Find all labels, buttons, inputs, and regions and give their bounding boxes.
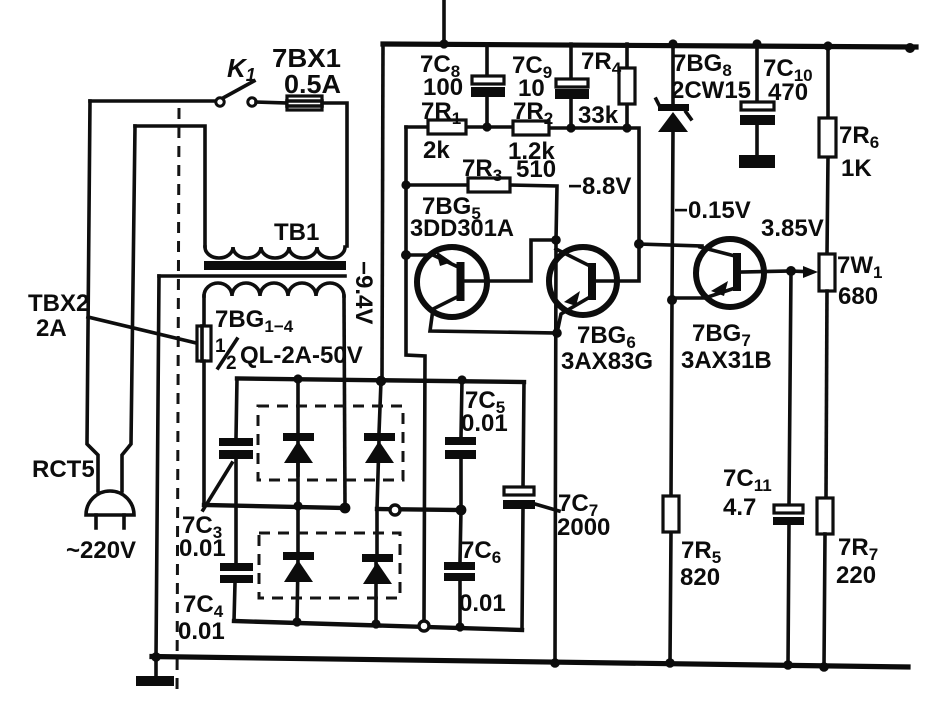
capacitor 7C3 column [234, 379, 237, 622]
svg-text:0.01: 0.01 [179, 535, 226, 562]
dashed box upper [258, 406, 403, 480]
ground [154, 657, 158, 677]
switch K1 [216, 81, 256, 106]
fuse 7BX1 [256, 102, 287, 103]
svg-text:−8.8V: −8.8V [568, 173, 631, 200]
wire mains right [122, 126, 135, 491]
svg-text:QL-2A-50V: QL-2A-50V [240, 342, 363, 369]
top bus [383, 44, 916, 47]
node bus bottom dots [550, 658, 560, 668]
plug RCT5 [86, 491, 134, 528]
capacitor 7C4 [220, 563, 253, 571]
svg-text:470: 470 [768, 79, 808, 106]
svg-text:680: 680 [838, 283, 878, 310]
svg-text:820: 820 [680, 564, 720, 591]
svg-text:220: 220 [836, 562, 876, 589]
capacitor 7C11 [774, 505, 803, 513]
svg-text:3.85V: 3.85V [761, 215, 824, 242]
capacitor 7C9 [569, 44, 573, 128]
diode D1 column [297, 379, 298, 622]
svg-text:1: 1 [215, 336, 226, 357]
fuse TBX2 [197, 326, 211, 361]
capacitor 7C8 [485, 44, 489, 127]
svg-text:2A: 2A [36, 315, 67, 342]
resistor 7R7 [817, 498, 833, 534]
capacitor 7C7 [504, 487, 534, 495]
transistor 7BG7 [672, 239, 791, 307]
resistor 7R4 [625, 44, 629, 128]
capacitor 7C10 [755, 44, 759, 156]
transformer TB1 secondary [204, 283, 344, 296]
svg-text:TB1: TB1 [274, 219, 319, 246]
svg-text:1K: 1K [841, 155, 872, 182]
diode 7BG1 [283, 433, 314, 441]
svg-text:~220V: ~220V [66, 537, 136, 564]
svg-text:3AX83G: 3AX83G [561, 348, 653, 375]
svg-text:510: 510 [516, 156, 556, 183]
capacitor 7C5 column [460, 380, 462, 627]
bridge middle right wire [377, 509, 461, 510]
svg-text:TBX2: TBX2 [28, 290, 89, 317]
svg-text:2000: 2000 [557, 514, 610, 541]
pointer TBX2 [88, 317, 196, 343]
wire bus to bridge top [382, 44, 383, 381]
wire secondary right [344, 296, 345, 506]
svg-text:3DD301A: 3DD301A [410, 215, 514, 242]
svg-text:0.5A: 0.5A [284, 69, 341, 99]
transistor 7BG6 [549, 244, 639, 333]
svg-text:−0.15V: −0.15V [674, 197, 751, 224]
diode 7BG4 [362, 554, 393, 562]
capacitor 7C6 [444, 562, 475, 570]
wire row R3 [406, 185, 557, 240]
svg-text:0.01: 0.01 [461, 410, 508, 437]
wire row R1 R2 [406, 127, 639, 244]
potentiometer 7W1 [819, 254, 835, 291]
svg-text:100: 100 [423, 74, 463, 101]
wire emitter rail [555, 240, 556, 663]
wire collector drop 7BG5 [406, 127, 425, 620]
resistor 7R5 [670, 300, 672, 663]
resistor 7R1 [428, 120, 466, 134]
chassis dashed line [177, 108, 179, 697]
bridge middle left wire [204, 505, 345, 508]
svg-text:4.7: 4.7 [723, 494, 756, 521]
wire shield to ground [156, 276, 159, 657]
zener 7BG8 [672, 44, 673, 300]
svg-text:0.01: 0.01 [178, 618, 225, 645]
transformer core [204, 261, 346, 270]
transformer TB1 primary [205, 247, 345, 258]
svg-text:RCT5: RCT5 [32, 456, 95, 483]
node ground-bus [151, 652, 161, 662]
svg-text:−9.4V: −9.4V [350, 261, 377, 324]
dashed box lower [259, 533, 400, 598]
diode D2 column [376, 381, 381, 624]
resistor 7R2 [513, 121, 549, 135]
bridge top wire [237, 379, 524, 383]
bottom bus [152, 657, 908, 668]
svg-text:10: 10 [518, 75, 545, 102]
wire stub top [442, 0, 446, 44]
svg-text:2: 2 [226, 353, 237, 374]
wiper arrow 7W1 [791, 269, 806, 273]
svg-text:2CW15: 2CW15 [671, 77, 751, 104]
wire secondary left [202, 296, 206, 326]
diode 7BG3 [283, 552, 314, 560]
wire right box edge [522, 382, 524, 630]
transistor 7BG5 [406, 240, 557, 333]
svg-text:2k: 2k [423, 137, 450, 164]
diode 7BG2 [364, 433, 395, 441]
resistor 7R3 [468, 178, 510, 192]
svg-text:3AX31B: 3AX31B [681, 347, 772, 374]
wire wiper to 7C11 [788, 271, 791, 665]
wire mains left [90, 99, 216, 103]
svg-text:0.01: 0.01 [459, 590, 506, 617]
resistor 7R6 [827, 46, 828, 254]
bridge bottom wire [234, 621, 522, 630]
svg-text:33k: 33k [578, 102, 619, 129]
wire 7BG7 collector [639, 244, 702, 246]
